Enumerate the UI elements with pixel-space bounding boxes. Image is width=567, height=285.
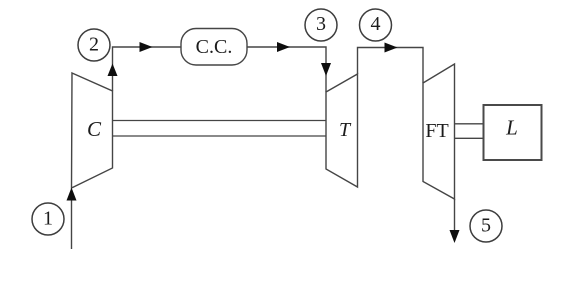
load box L bbox=[484, 105, 542, 160]
node 5 circle bbox=[470, 210, 502, 242]
wire C.C. to turbine (state 3) bbox=[247, 47, 326, 92]
node 2 circle bbox=[78, 29, 110, 61]
wire turbine to free turbine (state 4) bbox=[358, 48, 424, 84]
node 4 circle bbox=[360, 9, 392, 41]
arrow right toward FT bbox=[385, 43, 398, 53]
arrow exhaust down bbox=[450, 230, 460, 243]
turbine T bbox=[326, 74, 358, 187]
shaft FT to L bbox=[455, 123, 484, 125]
svg-text:C: C bbox=[87, 117, 102, 141]
svg-text:4: 4 bbox=[371, 13, 381, 35]
wire inlet to compressor (state 1) bbox=[71, 190, 73, 249]
svg-text:C.C.: C.C. bbox=[196, 36, 233, 58]
free turbine FT bbox=[423, 64, 455, 199]
wire compressor outlet up (state 2) bbox=[113, 47, 182, 91]
arrow right before C.C. bbox=[140, 42, 153, 52]
node 1 circle bbox=[32, 203, 64, 235]
svg-text:T: T bbox=[339, 119, 352, 141]
svg-text:3: 3 bbox=[316, 13, 326, 35]
svg-text:L: L bbox=[505, 116, 518, 140]
svg-text:1: 1 bbox=[43, 208, 53, 230]
combustion chamber C.C. bbox=[181, 29, 247, 66]
arrow into compressor bbox=[67, 188, 77, 201]
compressor C bbox=[72, 73, 113, 188]
node 3 circle bbox=[305, 9, 337, 41]
arrow up on compressor outlet bbox=[108, 64, 118, 77]
svg-text:FT: FT bbox=[425, 120, 448, 142]
arrow down into turbine bbox=[321, 63, 331, 76]
shaft C to T bbox=[113, 120, 327, 122]
svg-text:2: 2 bbox=[89, 34, 99, 56]
svg-text:5: 5 bbox=[481, 215, 491, 237]
arrow right after C.C. bbox=[277, 42, 290, 52]
wire exhaust from FT (state 5) bbox=[454, 199, 456, 231]
